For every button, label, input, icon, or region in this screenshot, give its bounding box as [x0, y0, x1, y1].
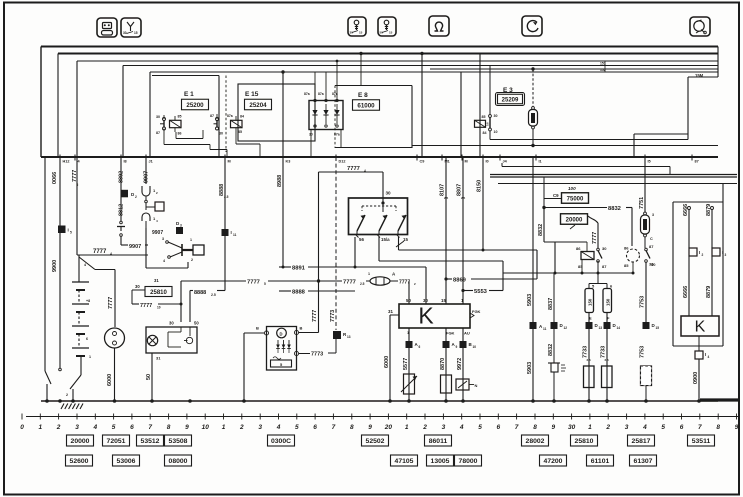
icon lamp omega [429, 16, 449, 36]
part number box 25817 [628, 435, 655, 446]
wire alternator B+ right to 7777 junction [299, 332, 319, 334]
svg-text:2: 2 [239, 424, 244, 431]
right end cap vertical of top lines [717, 47, 719, 78]
svg-text:9900: 9900 [52, 260, 58, 272]
wire 6666 column [688, 207, 691, 210]
connector square R13 [333, 331, 341, 339]
svg-text:M: M [228, 160, 231, 164]
top feed line F (E-row box top) [150, 71, 718, 73]
part number box 72051 [103, 435, 130, 446]
main ground bus [41, 400, 718, 402]
starter motor box [146, 321, 199, 361]
fuse above E3 output [529, 67, 538, 129]
wire 8869 riser [536, 250, 538, 279]
svg-text:7777: 7777 [93, 249, 107, 255]
wire distributor feed 7777a [114, 270, 116, 328]
wire I8 column 8892 [120, 157, 122, 221]
right horizontal line y183.5 [498, 183, 737, 185]
svg-text:D12: D12 [339, 160, 346, 164]
svg-text:K: K [418, 303, 434, 329]
icon engine (top-right) [690, 17, 710, 36]
relay E15 coil [227, 114, 244, 134]
svg-text:52502: 52502 [366, 438, 385, 445]
svg-text:0900: 0900 [693, 372, 699, 384]
svg-text:9972: 9972 [457, 358, 463, 370]
cold start injector dashed [641, 366, 652, 386]
svg-text:8832: 8832 [548, 344, 554, 356]
svg-text:2: 2 [605, 424, 610, 431]
relay E3 contact [486, 66, 498, 135]
svg-text:85: 85 [482, 115, 486, 119]
svg-text:13: 13 [599, 326, 603, 330]
svg-text:85: 85 [178, 115, 182, 119]
svg-text:53511: 53511 [692, 438, 711, 445]
svg-text:8832: 8832 [538, 224, 544, 236]
wire starter to ground 50 [151, 353, 153, 401]
svg-text:C9: C9 [553, 193, 559, 198]
svg-text:84: 84 [483, 131, 487, 135]
svg-text:E 8: E 8 [358, 92, 368, 99]
diagnostic plug on 8837 wire [548, 363, 566, 401]
switch at bottom of 0066 wire [45, 371, 51, 384]
wire K3 feed from line F down to bus [281, 70, 284, 73]
svg-text:56: 56 [359, 237, 364, 242]
svg-text:87: 87 [649, 244, 654, 249]
K control unit box [388, 298, 481, 336]
wire alternator B+ left to ground [244, 332, 264, 334]
svg-text:I: I [722, 250, 723, 255]
svg-text:4: 4 [459, 424, 464, 431]
wire D12 column dashed 7773 [335, 157, 337, 330]
svg-text:6000: 6000 [107, 374, 113, 386]
fuse 15A [641, 212, 655, 241]
wire 8832 horizontal [543, 199, 545, 208]
svg-text:5: 5 [661, 424, 665, 431]
wire 8869 horizontal [444, 277, 447, 280]
top feed line D [123, 65, 718, 67]
svg-text:3: 3 [442, 424, 446, 431]
svg-text:6: 6 [419, 345, 421, 349]
svg-text:8888: 8888 [292, 290, 306, 296]
svg-text:30: 30 [156, 115, 160, 119]
svg-text:50: 50 [406, 298, 411, 303]
svg-text:6: 6 [496, 424, 500, 431]
wire 8888 jog to starter pin 50 [224, 283, 226, 291]
corner join of E3 output line to step [687, 134, 689, 140]
svg-text:6: 6 [313, 424, 317, 431]
svg-text:28002: 28002 [526, 438, 545, 445]
svg-text:86011: 86011 [429, 438, 448, 445]
right step wire: 634 down to bus [633, 134, 635, 157]
connector square D14 [604, 322, 611, 329]
auxiliary relay contact [645, 244, 657, 267]
svg-text:86: 86 [178, 132, 182, 136]
connector square I4 [695, 351, 703, 359]
wire 7773 horizontal from alternator [299, 353, 310, 355]
svg-text:D: D [280, 332, 283, 337]
svg-text:61307: 61307 [634, 458, 653, 465]
svg-text:10: 10 [202, 424, 210, 431]
part number box 86011 [425, 435, 452, 446]
box around relay E1 [218, 76, 220, 158]
wire 7777-4 bracket to ignition switch [319, 171, 384, 173]
svg-text:87: 87 [602, 264, 607, 269]
part number box 28002 [522, 435, 549, 446]
plug connector upper half on J1 wire [142, 186, 150, 196]
right vertical wrap down to lower-right K box [722, 184, 724, 347]
svg-text:8891: 8891 [292, 266, 306, 272]
svg-text:7777: 7777 [592, 232, 598, 244]
svg-text:30: 30 [135, 284, 140, 289]
wire 8837 column [553, 273, 555, 363]
right horizontal double line lower [490, 176, 737, 178]
svg-text:1: 1 [190, 238, 192, 242]
svg-text:4: 4 [364, 169, 366, 173]
svg-text:4: 4 [92, 424, 97, 431]
svg-text:4: 4 [84, 263, 86, 267]
wire distributor to ground 6000 [114, 348, 116, 401]
icon ignition key 2 [378, 17, 396, 36]
step wire J4 to right [501, 163, 503, 167]
part number box 61307 [630, 455, 657, 466]
lower-right enclosure box top [673, 201, 723, 203]
svg-text:100: 100 [568, 186, 576, 191]
relay horizontal wire y273 [503, 272, 633, 274]
svg-text:I: I [231, 230, 232, 235]
svg-text:I: I [699, 250, 700, 255]
svg-text:31: 31 [156, 356, 161, 361]
svg-text:7777: 7777 [140, 303, 152, 309]
wire K3 column 8988 [282, 157, 284, 267]
svg-text:9: 9 [185, 424, 189, 431]
svg-text:1: 1 [38, 424, 42, 431]
svg-text:53512: 53512 [141, 438, 160, 445]
part number box 47200 [540, 455, 567, 466]
contact on I8 wire [120, 221, 123, 224]
connector square A11 [530, 322, 537, 329]
svg-text:11: 11 [543, 327, 547, 331]
svg-text:30: 30 [568, 424, 576, 431]
relay E1 coil [170, 115, 182, 136]
svg-text:4: 4 [163, 259, 165, 263]
relay component on J1 branch [145, 196, 147, 200]
svg-text:J1: J1 [149, 160, 153, 164]
svg-text:M: M [465, 160, 468, 164]
svg-text:47105: 47105 [395, 458, 414, 465]
svg-text:8: 8 [533, 424, 537, 431]
svg-text:2: 2 [702, 253, 704, 257]
svg-text:2: 2 [135, 195, 137, 199]
ballast resistor 150 left [585, 289, 594, 313]
svg-text:87a: 87a [304, 92, 310, 96]
svg-text:9: 9 [735, 424, 739, 431]
icon rotation / generator [522, 16, 542, 36]
K output B10 column 9972 [462, 328, 464, 401]
svg-text:AU: AU [464, 331, 470, 336]
svg-text:08000: 08000 [169, 458, 188, 465]
svg-text:15: 15 [441, 298, 446, 303]
svg-text:5: 5 [264, 282, 266, 286]
svg-text:2.5: 2.5 [605, 358, 610, 362]
bus pin ticks and connector labels [60, 155, 69, 164]
svg-text:3: 3 [75, 424, 79, 431]
wire 0066 leftmost column [44, 157, 46, 371]
K output A9 column 8870 [445, 328, 447, 401]
svg-text:11: 11 [233, 233, 237, 237]
svg-text:B: B [256, 326, 259, 331]
box around relay E15 [238, 84, 315, 141]
part number box 47105 [391, 455, 418, 466]
value box 20000 [561, 214, 588, 225]
svg-text:25810: 25810 [575, 438, 594, 445]
svg-text:86: 86 [576, 246, 581, 251]
ignition coil primary left [584, 366, 595, 388]
svg-text:7: 7 [148, 424, 152, 431]
wires resistors to connector squares [588, 313, 590, 402]
connector square D15 [643, 322, 650, 329]
svg-text:2: 2 [66, 393, 68, 397]
wire switch pin 56 down to 8891 [356, 237, 358, 267]
svg-text:30: 30 [602, 246, 607, 251]
svg-text:2.5: 2.5 [587, 358, 592, 362]
svg-text:7733: 7733 [583, 346, 589, 358]
svg-text:4: 4 [708, 355, 710, 359]
wire 8888 horizontal center [279, 290, 291, 292]
svg-text:9907: 9907 [152, 230, 163, 236]
svg-text:25204: 25204 [249, 102, 267, 109]
svg-text:87: 87 [695, 160, 699, 164]
wires feeding E8 diodes from top lines [359, 52, 362, 55]
svg-text:7777: 7777 [247, 280, 260, 286]
svg-text:7: 7 [332, 424, 336, 431]
sensor resistor on 8870 [441, 375, 452, 393]
ground bus thick right end [700, 398, 740, 401]
svg-text:E 15: E 15 [245, 91, 259, 98]
lower-right enclosure box bottom [673, 345, 723, 347]
svg-text:8107: 8107 [440, 184, 446, 196]
ignition coil primary right [602, 366, 613, 388]
svg-text:I0: I0 [486, 160, 489, 164]
part number box 52502 [362, 435, 389, 446]
part number box 53508 [165, 435, 192, 446]
svg-text:7773: 7773 [311, 352, 323, 358]
svg-text:8812: 8812 [119, 204, 125, 216]
wire E1 contact 87 to bus pin I6 [163, 133, 165, 145]
ignition switch box [349, 190, 409, 242]
plug connector lower half on J1 wire [142, 213, 150, 221]
svg-text:0.6: 0.6 [486, 122, 490, 126]
svg-text:2.5: 2.5 [444, 196, 449, 200]
svg-text:6666: 6666 [683, 286, 689, 298]
svg-text:4: 4 [276, 424, 281, 431]
wire box-A left edge down to bus [40, 47, 42, 158]
svg-text:1: 1 [368, 272, 370, 276]
svg-text:30: 30 [494, 114, 498, 118]
wire K pin31 to ground 6000 [390, 314, 396, 316]
wire 8832 down-left branch [543, 208, 545, 243]
box around E8 [335, 85, 412, 87]
svg-text:8150: 8150 [477, 180, 483, 192]
ground bus junction dots [45, 399, 49, 403]
icon ignition coil symbol (top-left 2) [121, 18, 141, 37]
connector square I11 on 8888 wire [222, 229, 229, 236]
svg-text:C9: C9 [420, 160, 425, 164]
dashed auxiliary relay coil circle [624, 246, 640, 275]
wire 5903 column from bus pin I1 [532, 157, 534, 401]
battery feed switch blade [79, 257, 95, 270]
svg-text:85: 85 [624, 263, 629, 268]
part number box 20000 [67, 435, 94, 446]
scale ruler ticks and numbers [20, 414, 739, 432]
svg-text:7733: 7733 [601, 346, 607, 358]
dashed divider right of E1 [225, 76, 227, 153]
wire M column 8807 to K pin 1 [462, 157, 464, 304]
wire H12 column 9900 [59, 157, 61, 368]
svg-text:61000: 61000 [357, 102, 375, 109]
svg-text:8807: 8807 [457, 184, 463, 196]
svg-text:2.5: 2.5 [211, 293, 216, 297]
svg-text:8869: 8869 [453, 278, 467, 284]
svg-text:8870: 8870 [440, 358, 446, 370]
svg-text:7751: 7751 [639, 197, 645, 209]
part number box 08000 [165, 455, 192, 466]
svg-text:25209: 25209 [502, 97, 519, 103]
svg-text:5903: 5903 [527, 294, 533, 306]
svg-text:2: 2 [422, 424, 427, 431]
capacitor block I3 [712, 248, 720, 256]
part number box 52600 [66, 455, 93, 466]
svg-text:30: 30 [649, 262, 654, 267]
svg-text:6: 6 [77, 183, 79, 187]
part number box 53006 [113, 455, 140, 466]
E8 diode box [304, 92, 343, 137]
svg-text:8: 8 [167, 424, 171, 431]
svg-text:7777: 7777 [347, 166, 360, 172]
svg-text:3: 3 [162, 237, 164, 241]
wire fuse bottom to line y145 [532, 129, 534, 146]
wire I0 column 8150 [482, 157, 484, 250]
right step wire: horizontal y134 [634, 133, 688, 135]
svg-text:7777: 7777 [108, 297, 114, 309]
svg-text:50: 50 [146, 374, 152, 380]
svg-text:78000: 78000 [459, 458, 478, 465]
svg-text:13: 13 [347, 335, 351, 339]
svg-text:I8: I8 [124, 160, 127, 164]
value box 61000 of E8 [353, 100, 380, 111]
part number box 0300C [268, 435, 295, 446]
svg-text:9907: 9907 [144, 171, 150, 183]
svg-text:13005: 13005 [431, 458, 450, 465]
K output A6 column 5577 [408, 328, 410, 401]
scale ruler line [26, 416, 738, 418]
ballast resistor 150 right [603, 289, 612, 313]
svg-text:8892: 8892 [119, 171, 125, 183]
svg-text:86: 86 [624, 246, 629, 251]
svg-text:4: 4 [642, 424, 647, 431]
connector square D13 [586, 322, 593, 329]
svg-text:5: 5 [478, 424, 482, 431]
svg-text:6: 6 [680, 424, 684, 431]
svg-text:6000: 6000 [384, 356, 390, 368]
svg-text:150: 150 [606, 298, 611, 306]
right step wire: 688 down [687, 77, 689, 134]
svg-text:52600: 52600 [70, 458, 89, 465]
svg-text:85: 85 [238, 130, 242, 134]
svg-text:6666: 6666 [683, 204, 689, 216]
svg-text:7777: 7777 [312, 310, 318, 322]
part number box 53512 [137, 435, 164, 446]
wire 5553 horizontal [461, 289, 464, 292]
right horizontal double line upper [490, 174, 737, 176]
svg-text:I1: I1 [539, 160, 542, 164]
wire box-D left edge down to bus (I8) [122, 66, 124, 158]
wire 5553 riser [502, 261, 504, 291]
capacitor block I2 [689, 248, 697, 256]
svg-text:8832: 8832 [608, 206, 621, 212]
alternator box [256, 326, 303, 371]
icon fusebox (top-left 1) [97, 18, 117, 37]
wire box-F left edge down to bus (J1) [149, 72, 151, 157]
top feed line A [41, 46, 718, 48]
svg-text:15: 15 [389, 31, 393, 35]
svg-text:31: 31 [154, 278, 159, 283]
E8 box bottom edge [335, 147, 412, 149]
wire 7777-10 from 25810 to starter pin 30 [132, 289, 145, 291]
lower-right enclosure box left edge [672, 202, 674, 346]
relay E3 coil on feed wire [475, 54, 487, 158]
svg-text:53006: 53006 [117, 458, 136, 465]
wire C9 path into 75000 [543, 177, 545, 199]
wire E3 contact pin 10 output line [489, 131, 491, 140]
connector square I5 on H12 wire [58, 226, 66, 234]
svg-text:C: C [650, 237, 653, 241]
wire C9 feed from line B down to bus [420, 52, 423, 55]
svg-text:5: 5 [70, 231, 72, 235]
svg-text:1: 1 [89, 355, 91, 359]
svg-text:10: 10 [473, 345, 477, 349]
svg-text:8879: 8879 [706, 286, 712, 298]
wire 8891 horizontal [279, 266, 291, 268]
wire E15 coil bottom going right [235, 131, 237, 144]
engine relay contact [597, 246, 608, 282]
svg-text:3: 3 [180, 224, 182, 228]
svg-text:5: 5 [112, 424, 116, 431]
svg-text:25810: 25810 [150, 290, 167, 296]
wire from y242 down to relay bus y273 [554, 242, 556, 273]
svg-text:2: 2 [56, 424, 61, 431]
svg-text:1: 1 [222, 424, 226, 431]
engine relay coil [576, 242, 594, 273]
ground switch blade bottom-left [70, 375, 81, 389]
svg-text:87: 87 [210, 114, 214, 118]
svg-text:9907: 9907 [129, 244, 141, 250]
wire I6 column 8888 2.5 [224, 157, 226, 283]
svg-text:H12: H12 [63, 160, 70, 164]
relay E15 contact [210, 114, 223, 136]
svg-text:3: 3 [725, 253, 727, 257]
svg-text:+8: +8 [86, 299, 90, 303]
svg-text:150: 150 [588, 298, 593, 306]
top feed line E [430, 68, 718, 70]
svg-text:20000: 20000 [566, 217, 583, 223]
value box 25204 of E15 [245, 99, 272, 110]
wire K right bottom [698, 336, 700, 351]
throttle switch on 9972 [456, 379, 478, 390]
top feed line C [77, 60, 718, 62]
svg-text:75000: 75000 [567, 196, 584, 202]
svg-text:I5: I5 [648, 160, 651, 164]
wire E3-box left edge down to bus [460, 72, 462, 157]
